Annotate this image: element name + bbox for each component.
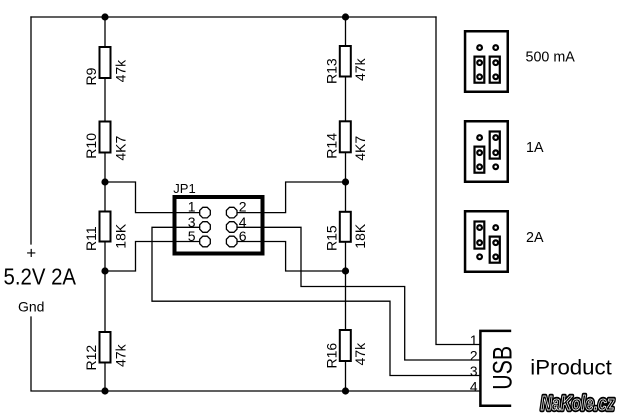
junction: left divider lower tap node — [101, 267, 108, 274]
500 mA box pin 3 — [477, 60, 482, 65]
svg-text:4: 4 — [470, 379, 478, 394]
svg-text:Gnd: Gnd — [18, 299, 44, 315]
svg-text:R13: R13 — [324, 58, 340, 84]
svg-text:4K7: 4K7 — [352, 136, 368, 161]
junction: bottom rail / left divider — [101, 387, 108, 394]
resistor R9 — [83, 47, 129, 86]
500 mA box pin 5 — [477, 74, 482, 79]
500 mA box pin 6 — [493, 74, 498, 79]
svg-text:+: + — [26, 244, 36, 263]
wire: +5.2V top rail horizontal — [31, 16, 436, 18]
svg-text:R15: R15 — [324, 225, 340, 251]
2A jumper shunt right (rows 2-3) — [490, 237, 500, 263]
svg-text:6: 6 — [239, 228, 247, 244]
wire: Gnd terminal vertical and bottom rail to USB pin 4 — [31, 317, 479, 391]
svg-text:NaKole.cz: NaKole.cz — [541, 392, 615, 414]
wire: JP1 pin 6 to right divider lower tap — [232, 242, 346, 272]
1A jumper shunt left (rows 2-3) — [475, 147, 485, 173]
2A box pin 4 — [493, 240, 498, 245]
junction: right divider lower tap node — [342, 267, 349, 274]
JP1 pin 2 pad — [226, 207, 237, 218]
wire: JP1 pin 3 to USB pin 3 — [152, 227, 479, 375]
2A jumper shunt left (rows 1-2) — [475, 222, 485, 249]
resistor R12 — [83, 332, 129, 371]
svg-text:18K: 18K — [352, 223, 368, 249]
svg-text:47k: 47k — [112, 59, 128, 83]
resistor R10 — [83, 122, 129, 161]
svg-text:18K: 18K — [112, 223, 128, 249]
1A jumper shunt right (rows 1-2) — [490, 132, 500, 159]
junction: right divider upper tap node — [342, 178, 349, 185]
resistor R11 — [83, 212, 129, 252]
wire: left divider tap to JP1 pin 1 — [105, 182, 205, 213]
svg-text:1: 1 — [188, 199, 196, 215]
2A box pin 6 — [493, 254, 498, 259]
logo NaKole.cz — [541, 392, 615, 414]
junction: top rail / left divider — [101, 13, 108, 20]
JP1 pin 6 pad — [226, 236, 237, 247]
JP1 pin 1 pad — [200, 207, 211, 218]
wire: JP1 pin 2 to right divider upper tap — [232, 182, 346, 213]
2A box pin 2 — [493, 225, 498, 230]
2A box pin 3 — [477, 240, 482, 245]
svg-text:R10: R10 — [83, 133, 99, 159]
jumper setting box: 500 mA outline — [465, 31, 508, 92]
svg-text:1A: 1A — [526, 140, 544, 156]
wire: right drop from top rail to USB pin 1 — [436, 17, 479, 345]
svg-text:5: 5 — [188, 228, 196, 244]
svg-text:R16: R16 — [324, 343, 340, 369]
svg-text:1: 1 — [470, 333, 478, 348]
connector JP1 outline — [175, 197, 263, 254]
svg-text:R11: R11 — [83, 226, 99, 251]
junction: top rail / right divider — [342, 13, 349, 20]
wire: JP1 pin 4 to USB pin 2 — [232, 227, 480, 360]
svg-text:5.2V 2A: 5.2V 2A — [4, 264, 77, 290]
svg-text:2A: 2A — [526, 230, 544, 246]
500 mA box pin 4 — [493, 60, 498, 65]
svg-text:500 mA: 500 mA — [526, 50, 576, 66]
JP1 pin 3 pad — [200, 222, 211, 233]
500 mA jumper shunt right (rows 2-3) — [490, 57, 500, 83]
junction: bottom rail / right divider — [342, 387, 349, 394]
1A box pin 5 — [477, 164, 482, 169]
svg-text:2: 2 — [239, 199, 247, 215]
wire: left divider chain vertical — [104, 17, 106, 391]
jumper setting box: 2A outline — [465, 211, 508, 272]
svg-text:JP1: JP1 — [173, 181, 195, 196]
resistor R15 — [324, 212, 368, 251]
resistor R16 — [324, 330, 368, 369]
svg-text:USB: USB — [488, 346, 518, 390]
1A box pin 1 — [477, 135, 482, 140]
svg-text:iProduct: iProduct — [530, 357, 612, 380]
1A box pin 4 — [493, 150, 498, 155]
svg-text:47k: 47k — [352, 342, 368, 366]
jumper setting box: 1A outline — [465, 121, 508, 182]
wire: left divider lower tap to JP1 pin 5 — [105, 242, 205, 272]
svg-text:3: 3 — [470, 364, 478, 379]
svg-text:2: 2 — [470, 349, 478, 364]
2A box pin 1 — [477, 225, 482, 230]
svg-text:4K7: 4K7 — [112, 135, 128, 160]
svg-text:R14: R14 — [324, 133, 340, 159]
500 mA jumper shunt left (rows 2-3) — [475, 57, 485, 83]
500 mA box pin 2 — [493, 45, 498, 50]
1A box pin 3 — [477, 150, 482, 155]
svg-text:47k: 47k — [352, 57, 368, 81]
JP1 pin 5 pad — [200, 236, 211, 247]
2A box pin 5 — [477, 254, 482, 259]
junction: left divider upper tap node — [101, 178, 108, 185]
svg-text:R12: R12 — [83, 345, 99, 371]
JP1 pin 4 pad — [226, 222, 237, 233]
connector USB outline — [480, 331, 511, 406]
1A box pin 6 — [493, 164, 498, 169]
1A box pin 2 — [493, 135, 498, 140]
wire: + terminal vertical (left) — [30, 17, 32, 244]
resistor R14 — [324, 121, 368, 161]
svg-text:47k: 47k — [112, 343, 128, 367]
500 mA box pin 1 — [477, 45, 482, 50]
svg-text:R9: R9 — [83, 67, 99, 85]
wire: right divider chain vertical — [345, 17, 347, 391]
resistor R13 — [324, 46, 368, 84]
